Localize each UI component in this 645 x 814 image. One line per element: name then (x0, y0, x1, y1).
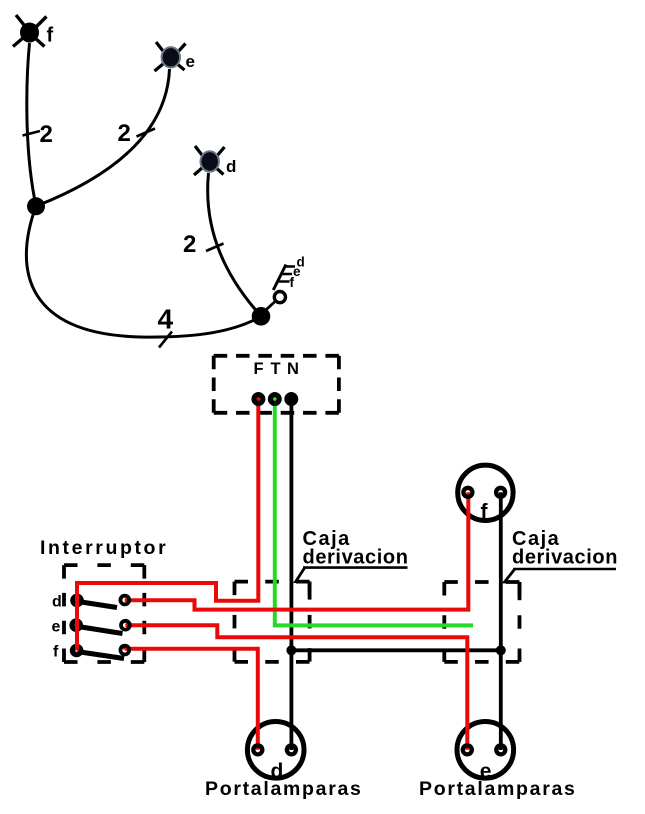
leader line (caja 2) (505, 569, 520, 582)
junction dot bus right (496, 645, 506, 655)
switch symbol (plan) (262, 265, 296, 315)
svg-text:4: 4 (158, 304, 174, 335)
underline (caja 1) (303, 566, 408, 569)
caja derivacion box 1 dashed (235, 582, 310, 662)
svg-text:Portalamparas: Portalamparas (205, 778, 363, 800)
wire N bus (black) between junction boxes (291, 648, 500, 652)
svg-text:2: 2 (118, 120, 131, 147)
svg-text:d: d (226, 157, 236, 176)
portalamparas d right terminal (285, 743, 298, 756)
switch d pole terminal (70, 594, 84, 608)
lamp d (plan) (194, 146, 225, 175)
svg-text:derivacion: derivacion (303, 547, 409, 569)
svg-text:2: 2 (40, 121, 53, 148)
wire switch e to portalamparas e (red) (125, 625, 467, 750)
lamp f left terminal (461, 486, 474, 499)
lamp f right terminal (494, 486, 507, 499)
caja derivacion box 2 dashed (444, 582, 519, 662)
svg-text:f: f (481, 501, 489, 524)
leader line (caja 1) (296, 568, 310, 582)
lamp f (plan) (13, 15, 47, 47)
svg-text:2: 2 (183, 231, 196, 258)
svg-text:e: e (293, 264, 301, 279)
portalamparas e right terminal (494, 743, 507, 756)
switch e lever (77, 626, 122, 633)
svg-text:N: N (287, 360, 299, 378)
wire lamp d to junction B (208, 173, 261, 316)
wire junction A to junction B (4 conductors) (26, 206, 261, 337)
portalamparas f circle (top right) (458, 465, 513, 520)
tick on wire f (23, 131, 41, 136)
portalamparas e left terminal (461, 743, 474, 756)
portalamparas e circle (457, 722, 514, 779)
switch d lever (78, 602, 117, 608)
wire T earth (green) (275, 396, 473, 625)
junction A (plan dot) (27, 197, 45, 215)
svg-text:d: d (52, 594, 62, 611)
terminal F (251, 392, 265, 406)
switch f lever (78, 652, 124, 659)
svg-text:F: F (254, 360, 264, 378)
FTN box dashed (214, 356, 339, 413)
svg-text:f: f (290, 275, 295, 290)
svg-text:e: e (52, 619, 61, 636)
terminal N (284, 392, 298, 406)
interruptor box dashed (64, 565, 144, 662)
underline (caja 2) (513, 568, 616, 571)
wire switch f to portalamparas d (red) (125, 649, 258, 750)
svg-text:f: f (47, 25, 54, 47)
wire switch d to lamp f (red) (125, 492, 469, 609)
terminal T (268, 392, 282, 406)
svg-text:Interruptor: Interruptor (40, 537, 168, 559)
portalamparas d left terminal (251, 743, 264, 756)
wire F feed (red) FTN to switch common (77, 396, 258, 651)
switch e pole terminal (69, 618, 83, 632)
switch f pole terminal (70, 644, 84, 658)
wire lamp f to junction A (27, 43, 36, 206)
tick on wire e (137, 129, 156, 137)
svg-text:Portalamparas: Portalamparas (419, 778, 577, 800)
tick on wire 4 (159, 332, 172, 348)
wire N (black) from FTN down to portalamparas d (289, 396, 293, 750)
svg-text:e: e (186, 52, 195, 71)
switch f output terminal (119, 644, 132, 657)
switch e output terminal (119, 619, 132, 632)
wire lamp e to junction A (37, 69, 170, 206)
tick on wire d (206, 244, 224, 252)
svg-text:T: T (271, 360, 281, 378)
lamp e (plan) (155, 42, 186, 71)
junction B (plan dot) (252, 307, 271, 326)
switch d output terminal (119, 594, 132, 607)
junction dot bus left (286, 645, 296, 655)
portalamparas d circle (247, 722, 304, 779)
svg-text:f: f (53, 644, 59, 661)
wire N (black) lamp f down to portalamparas e (499, 492, 503, 750)
svg-text:derivacion: derivacion (512, 547, 618, 569)
